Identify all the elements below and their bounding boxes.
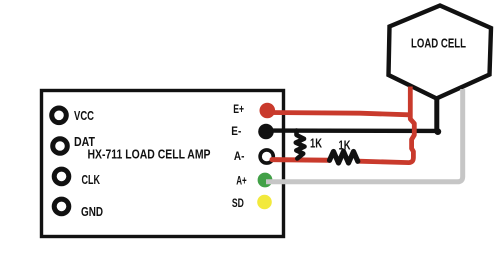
svg-text:E-: E- xyxy=(231,126,241,138)
pin CLK xyxy=(54,169,100,187)
svg-text:HX-711 LOAD CELL AMP: HX-711 LOAD CELL AMP xyxy=(88,147,211,162)
junction dot E- / load cell xyxy=(434,128,441,135)
svg-text:VCC: VCC xyxy=(74,108,94,123)
load cell hexagon xyxy=(389,6,492,99)
wire load cell bottom vertex down (black vertical) xyxy=(434,97,439,132)
svg-text:E+: E+ xyxy=(233,104,244,116)
svg-text:A-: A- xyxy=(234,151,245,163)
resistor R2 1K (horizontal) xyxy=(330,152,358,164)
wire E- to load cell (black horizontal) xyxy=(266,128,437,133)
pin E+ (red terminal) xyxy=(233,103,275,119)
svg-text:CLK: CLK xyxy=(82,172,101,187)
pin GND xyxy=(54,199,103,219)
resistor R1 1K (vertical) xyxy=(296,131,305,159)
pin VCC xyxy=(52,108,95,123)
svg-text:SD: SD xyxy=(232,198,244,210)
svg-text:1K: 1K xyxy=(339,137,351,152)
pin SD (yellow terminal) xyxy=(232,195,272,210)
pin E- (black terminal) xyxy=(231,124,274,140)
pin A+ (green terminal) xyxy=(236,173,272,188)
wire red vertical to load cell with hop over black, down to A- run xyxy=(359,87,415,163)
pin A- (white terminal) xyxy=(234,150,273,163)
svg-text:DAT: DAT xyxy=(74,134,95,149)
wire A- to resistor (red) xyxy=(272,157,330,163)
wire A+ to load cell (gray) xyxy=(266,89,463,182)
HX-711 board outline xyxy=(42,91,284,237)
svg-text:LOAD CELL: LOAD CELL xyxy=(411,36,466,51)
wire E+ (red horizontal) xyxy=(267,113,409,115)
svg-text:A+: A+ xyxy=(236,175,247,187)
pin DAT xyxy=(53,134,95,153)
svg-text:GND: GND xyxy=(81,204,103,219)
svg-text:1K: 1K xyxy=(310,136,322,151)
